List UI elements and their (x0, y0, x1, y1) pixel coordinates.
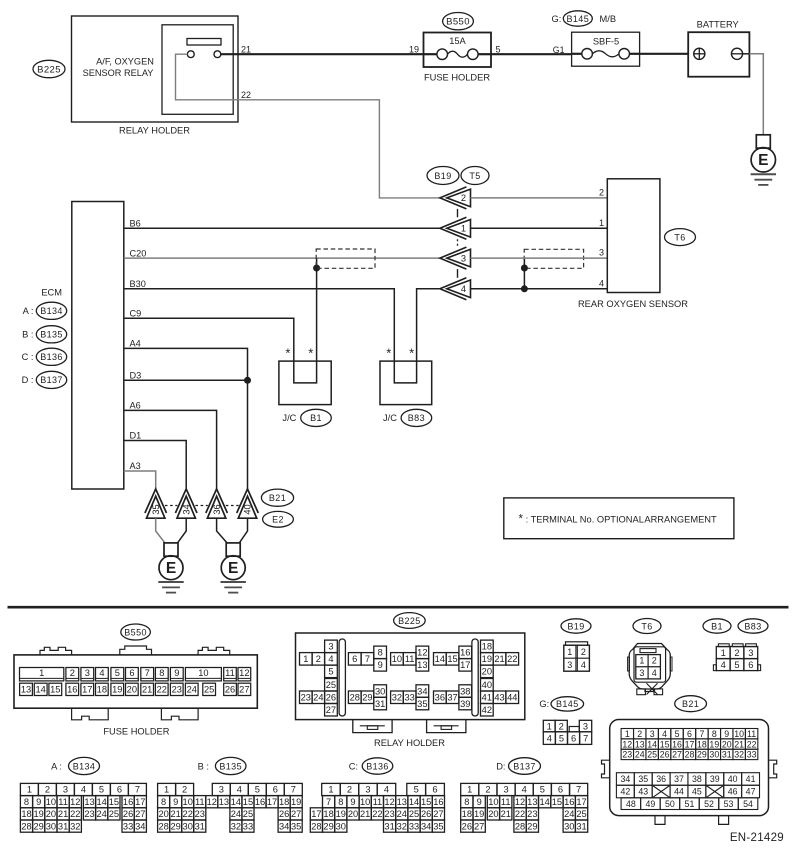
svg-text:6: 6 (129, 668, 134, 678)
svg-text:11: 11 (373, 797, 383, 807)
battery box (688, 32, 749, 76)
svg-text:30: 30 (46, 821, 56, 831)
svg-text:13: 13 (417, 660, 427, 670)
svg-text:28: 28 (685, 750, 695, 760)
oval B1 (pinout) (703, 619, 731, 633)
svg-text:3: 3 (650, 729, 655, 739)
svg-text:16: 16 (433, 797, 443, 807)
svg-text:7: 7 (135, 785, 140, 795)
svg-text:39: 39 (460, 699, 470, 709)
svg-text:2: 2 (581, 647, 586, 657)
svg-text:21: 21 (58, 809, 68, 819)
svg-text:36: 36 (212, 504, 222, 514)
svg-text:19: 19 (34, 809, 44, 819)
svg-text:B137: B137 (513, 761, 536, 771)
svg-text:6: 6 (748, 660, 753, 670)
svg-text:B1: B1 (310, 413, 322, 423)
svg-text:15: 15 (421, 797, 431, 807)
svg-text:11: 11 (58, 797, 68, 807)
oval B550 (pinout) (121, 624, 151, 640)
svg-text:16: 16 (564, 797, 574, 807)
svg-text:21: 21 (142, 685, 152, 695)
ground connector 34 (175, 489, 197, 513)
svg-text:4: 4 (581, 660, 586, 670)
svg-text:21: 21 (171, 809, 181, 819)
svg-text:43: 43 (494, 692, 504, 702)
svg-text:14: 14 (97, 797, 107, 807)
svg-text:REAR OXYGEN SENSOR: REAR OXYGEN SENSOR (578, 299, 688, 309)
connector B19 pinout (566, 642, 588, 645)
svg-text:5: 5 (414, 785, 419, 795)
svg-text:1: 1 (164, 785, 169, 795)
svg-text:BATTERY: BATTERY (697, 20, 739, 30)
svg-text:24: 24 (231, 809, 241, 819)
svg-text:24: 24 (187, 685, 197, 695)
ECM box (72, 202, 124, 490)
svg-text:B134: B134 (40, 306, 63, 316)
svg-text:G1: G1 (553, 45, 565, 55)
svg-text:22: 22 (70, 809, 80, 819)
svg-text:37: 37 (674, 774, 684, 784)
svg-text:7: 7 (699, 729, 704, 739)
svg-text:14: 14 (231, 797, 241, 807)
battery plus terminal (694, 48, 705, 59)
svg-text:G:: G: (539, 699, 549, 709)
wire connector 4 to sensor pin 4 (471, 288, 608, 290)
svg-text:A4: A4 (130, 339, 141, 349)
svg-text:4: 4 (328, 654, 333, 664)
svg-text:B19: B19 (434, 171, 451, 181)
svg-text:6: 6 (117, 785, 122, 795)
fuse holder bottom tabs (72, 708, 109, 720)
svg-text:21: 21 (734, 739, 744, 749)
svg-text:17: 17 (685, 739, 695, 749)
relay holder cells group 14-17 (434, 653, 447, 666)
svg-text:A :: A : (51, 761, 62, 771)
svg-text:24: 24 (564, 809, 574, 819)
svg-text:40: 40 (243, 504, 253, 514)
svg-text:34: 34 (417, 686, 427, 696)
svg-text:27: 27 (326, 705, 336, 715)
svg-text:22: 22 (372, 809, 382, 819)
svg-text:25: 25 (204, 685, 214, 695)
wire A6 (124, 410, 217, 489)
svg-text:27: 27 (672, 750, 682, 760)
svg-text:B83: B83 (744, 621, 761, 631)
svg-text:4: 4 (547, 733, 552, 743)
svg-text:24: 24 (397, 809, 407, 819)
svg-text:54: 54 (743, 799, 753, 809)
oval B83 (pinout) (738, 619, 768, 633)
svg-text:14: 14 (435, 654, 445, 664)
svg-text:G:: G: (552, 14, 562, 24)
svg-text:3: 3 (328, 642, 333, 652)
svg-text:33: 33 (409, 821, 419, 831)
oval T6 (665, 229, 696, 246)
svg-text:D :: D : (22, 375, 34, 385)
wire B30 through J/C B83 to connector 4 (124, 289, 440, 383)
svg-text:30: 30 (709, 750, 719, 760)
connector B21 top grid (621, 729, 633, 739)
svg-text:J/C: J/C (282, 413, 296, 423)
svg-text:A6: A6 (130, 401, 141, 411)
svg-text:B135: B135 (40, 330, 63, 340)
svg-text:6: 6 (571, 733, 576, 743)
svg-text:25: 25 (409, 809, 419, 819)
svg-text:40: 40 (728, 774, 738, 784)
svg-text:32: 32 (734, 750, 744, 760)
oval B550 (443, 13, 474, 30)
svg-text:10: 10 (183, 797, 193, 807)
fuse holder box B550 (424, 33, 492, 68)
svg-text:13: 13 (527, 797, 537, 807)
relay contact circles (187, 51, 194, 58)
SBF-5 fuse box (572, 32, 640, 66)
svg-text:13: 13 (219, 797, 229, 807)
svg-text:32: 32 (397, 821, 407, 831)
fuse holder pinout box (14, 655, 257, 708)
note box terminal optional arrangement (504, 498, 734, 539)
svg-text:22: 22 (747, 739, 757, 749)
svg-text:3: 3 (639, 668, 644, 678)
ground E (battery) (756, 135, 770, 148)
svg-text:31: 31 (722, 750, 732, 760)
svg-text:38: 38 (692, 774, 702, 784)
svg-text:10: 10 (734, 729, 744, 739)
svg-text:B145: B145 (566, 14, 589, 24)
svg-text:53: 53 (724, 799, 734, 809)
svg-text:1: 1 (461, 224, 466, 234)
svg-text:36: 36 (435, 692, 445, 702)
svg-text:20: 20 (46, 809, 56, 819)
svg-text:23: 23 (384, 809, 394, 819)
svg-text:6: 6 (687, 729, 692, 739)
svg-text:E2: E2 (272, 515, 284, 525)
oval B21 (schematic) (261, 489, 293, 506)
svg-text:15: 15 (660, 739, 670, 749)
svg-text:41: 41 (746, 774, 756, 784)
svg-text:15: 15 (50, 685, 60, 695)
svg-text:36: 36 (656, 774, 666, 784)
svg-text:B19: B19 (567, 621, 584, 631)
svg-text:2: 2 (599, 187, 604, 197)
svg-text:3: 3 (567, 660, 572, 670)
connector B134 pinout (20, 783, 38, 795)
svg-text:B1: B1 (711, 621, 723, 631)
svg-text:25: 25 (326, 680, 336, 690)
connector B135 pinout (158, 783, 176, 795)
svg-text:12: 12 (239, 668, 249, 678)
wire B6 to connector 1 (124, 227, 440, 229)
svg-text:33: 33 (243, 821, 253, 831)
svg-text:30: 30 (564, 821, 574, 831)
dotted links between ground connectors (165, 505, 178, 507)
svg-text:20: 20 (722, 739, 732, 749)
svg-text:C:: C: (349, 761, 358, 771)
relay holder cells group 32-35 (391, 691, 404, 704)
svg-text:FUSE HOLDER: FUSE HOLDER (424, 73, 490, 83)
svg-text:22: 22 (157, 685, 167, 695)
svg-text:29: 29 (362, 692, 372, 702)
svg-text:EN-21429: EN-21429 (730, 832, 784, 844)
svg-text:31: 31 (576, 821, 586, 831)
svg-text:48: 48 (626, 799, 636, 809)
wire relay pin22 to connector 2 (176, 54, 239, 100)
svg-text:12: 12 (207, 797, 217, 807)
svg-text:12: 12 (384, 797, 394, 807)
svg-text:7: 7 (145, 668, 150, 678)
svg-text:22: 22 (507, 654, 517, 664)
svg-text:20: 20 (158, 809, 168, 819)
svg-text:5: 5 (99, 785, 104, 795)
svg-text:12: 12 (515, 797, 525, 807)
wires to ground E left (156, 518, 165, 543)
svg-text:16: 16 (67, 685, 77, 695)
relay holder right bar (472, 639, 478, 716)
svg-text:4: 4 (599, 278, 604, 288)
svg-text:3: 3 (503, 785, 508, 795)
relay holder cells group 28-31 (348, 691, 361, 704)
svg-text:19: 19 (336, 809, 346, 819)
svg-text:C20: C20 (130, 248, 147, 258)
oval B21 (pinout) (675, 696, 707, 712)
svg-text:31: 31 (195, 821, 205, 831)
svg-text:*: * (285, 346, 290, 361)
power wire relay pin21 to fuse holder (221, 53, 424, 55)
svg-text:3: 3 (461, 253, 466, 263)
svg-text:14: 14 (36, 685, 46, 695)
svg-text:B6: B6 (130, 219, 141, 229)
rear oxygen sensor box (607, 179, 660, 293)
svg-text:7: 7 (576, 785, 581, 795)
svg-text:30: 30 (183, 821, 193, 831)
relay holder cells group 1-5 (300, 653, 313, 666)
svg-text:27: 27 (433, 809, 443, 819)
svg-text:18: 18 (462, 809, 472, 819)
svg-text:26: 26 (225, 685, 235, 695)
svg-text:47: 47 (746, 787, 756, 797)
svg-text:6: 6 (273, 785, 278, 795)
svg-text:2: 2 (461, 193, 466, 203)
relay inner box (162, 25, 233, 115)
svg-text:10: 10 (46, 797, 56, 807)
svg-text:1: 1 (27, 785, 32, 795)
svg-text:41: 41 (482, 692, 492, 702)
svg-text:43: 43 (638, 787, 648, 797)
svg-text:7: 7 (326, 797, 331, 807)
wire C9 through J/C B1 to C20 branch (124, 258, 317, 383)
svg-text:B30: B30 (130, 279, 146, 289)
svg-text:B :: B : (22, 330, 33, 340)
svg-text:21: 21 (241, 45, 251, 55)
svg-text:34: 34 (181, 504, 191, 514)
svg-text:22: 22 (183, 809, 193, 819)
svg-text:27: 27 (291, 809, 301, 819)
svg-text:E: E (758, 152, 768, 169)
relay holder cells group 6-9 (348, 653, 361, 666)
wire connector 1 to sensor pin 1 (471, 227, 608, 229)
svg-text:9: 9 (350, 797, 355, 807)
wire connector 2 to sensor pin 2 (471, 197, 608, 199)
svg-text:T6: T6 (674, 232, 685, 242)
svg-text:B145: B145 (556, 699, 579, 709)
svg-text:50: 50 (665, 799, 675, 809)
svg-text:3: 3 (219, 785, 224, 795)
ground connector 40 (237, 489, 259, 513)
svg-text:11: 11 (747, 729, 756, 739)
svg-text:10: 10 (198, 668, 208, 678)
svg-text:1: 1 (328, 785, 333, 795)
svg-text:12: 12 (417, 648, 427, 658)
svg-text:10: 10 (488, 797, 498, 807)
svg-text:4: 4 (99, 668, 104, 678)
svg-text:49: 49 (645, 799, 655, 809)
svg-text:1: 1 (303, 654, 308, 664)
svg-text:9: 9 (174, 668, 179, 678)
svg-text:1: 1 (547, 721, 552, 731)
svg-text:4: 4 (384, 785, 389, 795)
oval B225 (pinout) (394, 613, 426, 629)
svg-text:18: 18 (482, 642, 492, 652)
svg-text:31: 31 (58, 821, 68, 831)
svg-text:32: 32 (392, 692, 402, 702)
svg-text:3: 3 (599, 248, 604, 258)
svg-text:5: 5 (255, 785, 260, 795)
svg-text:2: 2 (652, 656, 657, 666)
svg-text:33: 33 (404, 692, 414, 702)
svg-text:34: 34 (421, 821, 431, 831)
svg-text:29: 29 (323, 821, 333, 831)
svg-text:2: 2 (316, 654, 321, 664)
svg-text:26: 26 (123, 809, 133, 819)
wire C20 to connector 3 (124, 257, 440, 259)
svg-text:26: 26 (660, 750, 670, 760)
ground connector 36 (206, 489, 228, 513)
svg-text:8: 8 (712, 729, 717, 739)
svg-text:20: 20 (127, 685, 137, 695)
svg-text:16: 16 (460, 648, 470, 658)
svg-text:1: 1 (39, 668, 44, 678)
svg-text:33: 33 (747, 750, 757, 760)
svg-text:12: 12 (622, 739, 632, 749)
svg-text:6: 6 (558, 785, 563, 795)
fuse holder top tabs (40, 647, 72, 655)
svg-text:22: 22 (241, 90, 251, 100)
svg-text:13: 13 (84, 797, 94, 807)
svg-text:M/B: M/B (600, 14, 617, 24)
svg-text:T5: T5 (469, 171, 480, 181)
svg-text:2: 2 (734, 648, 739, 658)
svg-text:9: 9 (477, 797, 482, 807)
svg-text:5: 5 (328, 667, 333, 677)
svg-text:17: 17 (311, 809, 321, 819)
svg-text:B134: B134 (73, 761, 96, 771)
junction connector J/C B1 (279, 361, 331, 405)
fuse holder cells (20, 668, 64, 681)
svg-text:2: 2 (70, 668, 75, 678)
connector B136 pinout (322, 783, 341, 795)
oval B19 (427, 167, 459, 185)
connector B21 middle grid (616, 773, 634, 786)
svg-text:8: 8 (378, 648, 383, 658)
fuse symbol SBF-5 (582, 49, 593, 60)
svg-text:22: 22 (515, 809, 525, 819)
svg-text:* : TERMINAL No. OPTIONALARRAN: * : TERMINAL No. OPTIONALARRANGEMENT (519, 514, 718, 526)
svg-text:2: 2 (347, 785, 352, 795)
svg-text:14: 14 (409, 797, 419, 807)
inline connector 1 (440, 217, 467, 239)
svg-text:25: 25 (109, 809, 119, 819)
svg-text:23: 23 (622, 750, 632, 760)
svg-text:13: 13 (397, 797, 407, 807)
svg-text:52: 52 (704, 799, 714, 809)
svg-text:18: 18 (697, 739, 707, 749)
svg-text:8: 8 (464, 797, 469, 807)
svg-text:19: 19 (409, 45, 419, 55)
svg-text:34: 34 (279, 821, 289, 831)
dashed optional box on line 3 (524, 249, 583, 268)
svg-text:19: 19 (112, 685, 122, 695)
svg-text:4: 4 (662, 729, 667, 739)
svg-text:B137: B137 (40, 375, 63, 385)
svg-text:1: 1 (599, 218, 604, 228)
svg-text:SENSOR RELAY: SENSOR RELAY (83, 68, 154, 78)
svg-text:7: 7 (291, 785, 296, 795)
svg-text:17: 17 (267, 797, 277, 807)
ground connector 35 (145, 489, 167, 513)
svg-text:ECM: ECM (41, 288, 62, 298)
svg-text:5: 5 (115, 668, 120, 678)
fuse symbol 15A (437, 49, 448, 60)
svg-text:42: 42 (620, 787, 630, 797)
svg-text:17: 17 (576, 797, 586, 807)
svg-text:4: 4 (461, 284, 466, 294)
svg-text:14: 14 (647, 739, 657, 749)
oval T5 (461, 167, 489, 185)
svg-text:51: 51 (685, 799, 695, 809)
svg-text:12: 12 (70, 797, 80, 807)
svg-text:2: 2 (182, 785, 187, 795)
svg-text:19: 19 (709, 739, 719, 749)
oval B19 (pinout) (561, 619, 591, 633)
svg-text:1: 1 (721, 648, 726, 658)
svg-text:18: 18 (323, 809, 333, 819)
svg-text:18: 18 (21, 809, 31, 819)
wire fuse holder to SBF-5 (491, 53, 572, 55)
svg-text:4: 4 (237, 785, 242, 795)
svg-text:27: 27 (239, 685, 249, 695)
svg-text:24: 24 (97, 809, 107, 819)
relay holder cells group 18-22 (481, 640, 494, 653)
relay holder cells group 36-39 (434, 691, 447, 704)
connector B1/B83 pinout (718, 644, 729, 647)
inline connector 2 (440, 187, 467, 209)
svg-text:SBF-5: SBF-5 (593, 37, 619, 47)
svg-text:13: 13 (635, 739, 645, 749)
junction connector J/C B83 (380, 361, 432, 405)
svg-text:D3: D3 (130, 371, 142, 381)
svg-text:16: 16 (672, 739, 682, 749)
svg-text:1: 1 (467, 785, 472, 795)
svg-text:15: 15 (243, 797, 253, 807)
svg-text:23: 23 (84, 809, 94, 819)
svg-text:39: 39 (710, 774, 720, 784)
relay holder left bar (339, 639, 345, 716)
svg-text:C9: C9 (130, 309, 142, 319)
svg-text:16: 16 (255, 797, 265, 807)
svg-text:31: 31 (384, 821, 394, 831)
svg-text:4: 4 (721, 660, 726, 670)
